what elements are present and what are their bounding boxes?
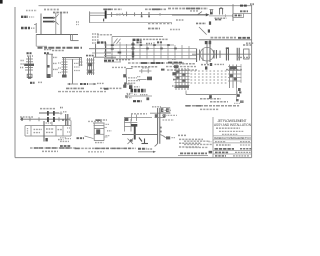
collar wire [150,112,171,114]
caption line2b [88,151,104,153]
cell text c3 [46,128,54,130]
dark streak [132,51,134,57]
cross tick 1 [131,115,133,122]
frame right [251,5,253,158]
note row m2 [179,138,203,140]
caption psi [30,82,35,84]
tb sub row 1 [216,127,240,129]
label AWG [21,16,28,18]
figure E U-frame [58,58,106,92]
tb left wall [212,117,214,158]
faint marks row mid-page [62,95,128,121]
terminal bar [105,10,107,18]
top tie [46,53,53,55]
tb rule 1 [213,135,252,137]
head box [160,108,170,113]
splice bead 2 [146,48,149,50]
splice bead 6 [174,48,177,50]
cap line 2 [94,125,105,127]
notes paragraph right [185,100,244,109]
bottom rail [94,140,104,142]
rung 4 [25,69,33,71]
body right wall [103,123,105,141]
conductor bar 2 [43,21,53,23]
main pipe [20,118,70,120]
label 21-4 right [237,56,250,58]
note row m1 [178,134,187,136]
caption fig21-5 [30,147,76,149]
top tick a [51,122,53,126]
splice bead 8 [131,43,134,45]
label TYP [133,100,142,102]
tb rule 5 [213,153,252,155]
side label 3 [53,68,58,70]
rung f2 [87,62,95,64]
right column small tags [172,59,180,86]
leader and note right [199,27,252,62]
wire stub [35,23,37,33]
label TYP dark [147,77,152,81]
wire vertical bus [40,14,42,35]
top rail dark [62,57,82,59]
rev text [180,152,207,154]
lace row 2 [191,73,229,75]
frame bottom [15,157,252,159]
lace row 3 [191,76,229,78]
marks row [196,22,206,24]
label right [97,82,104,84]
box left wall [232,4,234,21]
beta mark 2 [205,66,207,69]
tab E2 [123,85,126,88]
middle harness grid schematic [89,34,197,70]
side label 2 [107,130,112,132]
table top rail [25,125,71,127]
caption FIG21-1 line2 [52,50,64,52]
top label [152,106,161,108]
cross tick 2 [136,115,138,122]
dimension line [90,22,172,24]
tick T5 [134,12,136,16]
drop wire 5 [146,43,148,59]
tee junction figure bottom-middle-right [122,114,158,153]
drop wire 6 [153,42,155,62]
tag r3 [172,72,176,75]
drop wire 3 dark [132,42,134,61]
mid tag 7 [209,95,212,99]
faint see-note [88,120,102,122]
caption row under grid [128,62,184,64]
clip top wire [139,70,152,72]
tag r4 [173,79,177,81]
rung 2 [26,61,33,63]
col line 1 [24,126,26,136]
label [86,55,94,57]
connector G verticals [95,44,97,57]
x brace [128,139,134,145]
label LI [129,85,132,89]
wire to box [209,15,233,17]
top label [46,122,52,124]
bus wire 6 [104,61,121,63]
header text [172,63,195,65]
right leg b [81,58,83,66]
tb row b [216,144,231,146]
beta tag [208,29,210,32]
side label 2 [53,62,57,64]
wire pair upper [90,12,106,14]
bracket fixture mid-left [100,69,140,98]
rung e5 [62,71,68,73]
step down [70,35,72,41]
rung r2 [79,64,83,66]
outlet curve [160,135,166,138]
label row2 [240,10,248,12]
svg-text:FEDERAL POWER ELEMENT CO: FEDERAL POWER ELEMENT CO [214,136,252,140]
note text rows [128,77,137,79]
label chunk [137,41,143,43]
label top [27,52,32,54]
dash row mid [148,23,172,25]
tb row e [215,155,226,157]
body left wall [93,123,95,141]
frame left [14,7,16,158]
text above right long [168,8,208,10]
rung 1 [26,58,33,60]
label REF [80,83,88,85]
tick T7 with bead [148,12,150,17]
rung e3 [62,66,68,68]
lace row 5 [191,82,229,84]
text row note1 [26,10,37,12]
wire vertical mid [55,13,57,34]
appr row 3 [186,146,208,148]
right label row [162,109,171,111]
hatch [114,39,118,44]
tee bold vertical [134,124,136,140]
capacitor pair 3 tall [225,48,227,61]
ref arrow right [89,83,97,85]
table bottom rail [25,135,71,137]
clip fixture mid [129,68,152,89]
valve stack figure bottom-middle [77,120,112,143]
right outer rail [240,64,242,83]
label MADE dark [60,145,71,147]
text above mid [145,8,166,10]
wire vertical right [60,13,62,35]
drop wire 8 [167,44,169,60]
mark TI [62,119,68,121]
tag r1 [172,58,177,60]
pin tick 2 [239,91,241,93]
label top right small [246,42,254,44]
side label 3 [106,135,111,137]
caption fig21-3 [66,87,85,89]
divider 2 [94,133,104,135]
caption FIG21-1 line1 [38,47,83,49]
tb row d [215,151,229,153]
detail reference box top-right [209,4,255,21]
divider 1 [94,128,104,130]
chain vertical 2 [199,50,201,61]
side label 1 [106,123,110,125]
caption row 2 [131,66,158,68]
text above left [103,8,122,10]
tag r5 [172,85,180,87]
center stem [72,59,74,83]
label fig [201,64,211,66]
component chain with valve circle [192,43,254,69]
caption fig21-7 [74,147,136,149]
tb sub row 2 [219,130,244,132]
end bead [21,118,23,121]
right block rungs [228,66,242,68]
post right [51,54,53,77]
faint label [234,102,241,104]
top rail 2 [62,58,82,60]
wire horizontal [199,39,252,41]
top label [95,119,107,121]
tb rule 3 [213,142,252,144]
right block beads [230,66,237,69]
grid left wall [111,37,113,59]
rung e4 [62,69,68,71]
materials note block [178,135,203,147]
lace row 1 [191,70,229,72]
upper wire [124,117,152,119]
pin label 2 [21,63,25,65]
box component [244,49,249,59]
bracket riser right [236,91,238,95]
grid bottom shelf [93,56,116,58]
splice mark [198,12,203,15]
wire bottom rail [36,34,78,36]
tee bold cap [131,124,137,126]
blob 1 [88,63,92,66]
label top [44,49,52,51]
rung 3 [25,67,33,69]
clamp 2 [53,117,55,122]
tick T3 [122,13,124,16]
capacitor pair 4 tall [236,48,238,61]
left block rungs [175,70,190,72]
frame verticals [124,119,126,132]
label EL4 [77,137,85,139]
tb side mark [209,151,212,154]
cell text c1 [27,128,29,134]
standpipe figure (double vertical) [150,107,177,147]
side note rows [127,93,133,95]
label TO PNL [21,27,30,29]
side tick 1 [104,126,107,128]
col line 4 [55,126,57,136]
figure B post pair [44,50,58,78]
main cable wire [107,14,172,16]
dim text [176,19,184,21]
connector G rails [89,48,111,50]
svg-text:ASSY AND INSTALLATION: ASSY AND INSTALLATION [214,123,252,127]
caption fig21-6 [200,98,221,100]
left pin list [92,33,99,35]
appr row 2 [184,143,212,145]
pin tick 1 [238,88,241,91]
top label [131,113,147,115]
capacitor pair 2 [219,51,221,59]
terminal board fig (keyboard) [124,82,152,101]
caption chain [226,69,242,71]
pipe wall left [157,108,159,144]
splice bead 3 [153,44,156,46]
rung e1 [62,61,68,63]
pipe wall right [159,108,161,144]
stray dark diag [139,138,142,142]
leader [85,136,94,139]
pin tick 4 [236,99,239,101]
bracket bar [186,94,237,96]
text below right [58,139,64,141]
splice bead 7 [111,44,114,46]
splice bead 1 [140,44,143,46]
corner mark [0,0,3,4]
frame top [39,5,252,7]
dark base band [175,85,190,88]
bracket lower arm [126,77,128,85]
left leg a [63,58,65,75]
pin label 1 [21,60,25,62]
tb row a [215,141,226,143]
text see detail [211,37,237,39]
label mfr [100,87,122,89]
dark band [24,64,34,66]
label AWG1 dark [133,39,142,41]
collar rung [155,117,166,119]
right block rails [229,65,231,89]
appr row 1 [184,140,210,142]
tb rule 4 [213,150,252,152]
upper pipe [39,112,59,114]
drop wire 7 [160,44,162,59]
left block rails [175,68,177,90]
mid bead [47,65,50,68]
bus wire 1 [104,44,174,46]
note line 2 [200,108,219,110]
cell text c5 [67,127,70,129]
rails [87,58,89,75]
bus wire 2 [104,48,196,50]
wire vertical drop [209,40,211,62]
right side pin column [234,84,241,103]
chain vertical 4 [206,44,208,64]
rail right [29,57,31,78]
note row m4 [179,146,199,148]
text row note3 [53,12,68,14]
pin tick 3 [237,94,240,97]
bracket top arm [126,68,132,70]
see-detail text [40,108,56,110]
clamp fig A [219,9,221,15]
tick T8 [159,13,161,16]
tb side faint [209,141,212,143]
label MED [104,60,114,62]
blob 2 [88,70,92,73]
tb rule 2 [213,139,252,141]
grid top border [112,36,163,38]
conductor bar 1 [43,17,53,19]
upper end tick [60,111,62,114]
right terminal strip table [172,63,242,99]
pipe dots [160,127,161,129]
clip ticks [141,69,143,73]
label right 2 [163,119,175,121]
connector G label [97,41,106,43]
label HOLD [215,17,227,19]
label 21-4 arrow [243,44,252,46]
frame rungs [124,122,137,124]
arrow under caption [138,151,155,153]
cap line 1 [93,122,105,124]
chain vertical 1 [196,49,198,63]
capacitor pair 1 [213,50,215,59]
foot dark blob [62,75,67,78]
rung f1 [87,59,95,61]
figure FIG21-1 top-left assembly [21,10,82,51]
bottom label [95,142,104,144]
bus wire [192,53,251,55]
text row note2 [44,9,60,11]
coupler bars [65,114,67,126]
lower rail [122,134,158,136]
ref arrow left [68,83,79,85]
base wire [125,95,152,97]
rung f4 [87,72,95,74]
center labels [74,62,80,64]
label FIG dark [240,5,248,7]
note row left [148,28,160,30]
figure A left ladder [20,53,42,83]
clip lower wire [138,79,147,81]
bus wire 4 [104,55,196,57]
datum text [97,34,112,36]
base ticks [127,93,131,95]
pin text right [76,21,80,23]
tag 7 below [45,138,47,141]
box divider 1 [233,13,252,15]
collar beads [155,114,158,117]
left text rows [60,137,66,139]
col line 3 heavy [43,121,45,142]
caption line2 [42,150,58,152]
title block [209,117,252,158]
outlet label dark [166,136,170,139]
extension line [35,35,37,47]
note text above main [20,116,34,118]
upper clamps [47,111,49,116]
left tick labels [58,62,61,64]
note line 1 [185,105,240,107]
dim tick [103,19,105,22]
figure F ladder [86,56,95,75]
drop wire 9 [174,45,176,60]
clamp 1 [47,117,49,122]
tab E1 [123,74,126,77]
label row3 [235,14,243,16]
anchor bracket [144,139,146,144]
plus mark [137,76,140,78]
right leg a [79,58,81,66]
connector pin fig [210,10,212,15]
tb sub row 3 [222,133,238,135]
bracket riser left [185,91,187,95]
